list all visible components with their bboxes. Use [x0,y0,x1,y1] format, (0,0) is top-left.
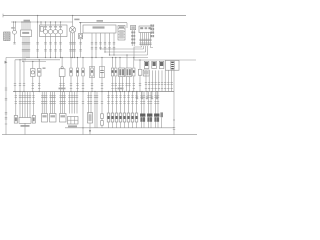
fuel injector assembly box [40,25,68,37]
fuse F6 [127,113,130,128]
ignition module Q1 [59,57,65,92]
wire bundle: mid loads [41,92,92,114]
EGR valve assembly box [165,60,179,70]
heated oxygen sensor HO2S-2 [152,61,157,68]
PCM module U1 [83,25,116,33]
switch module S1 [139,26,153,33]
label: splice S102 [118,88,124,90]
wire: shield bus [24,61,46,63]
glow plug pair GP3 [154,114,159,128]
fuse F1 [107,113,110,128]
ignition coil T1 [69,27,75,33]
fuse F7 [131,113,134,128]
wire bundle: glow plug feeds [140,92,159,114]
wire bundle: right cluster grounds [145,70,173,91]
lamp assembly E3 [60,114,67,123]
wire: bus-to-bus link [82,91,84,135]
wire bundle: right loads [107,91,137,113]
connector row C (PCM wires) [91,42,115,49]
wire: bus end drop at C113 [126,23,128,28]
label: valves [43,68,46,69]
lamp assembly E2 [50,114,57,123]
wire: main right drop [173,70,175,134]
fuse F4 [119,113,122,128]
fuse F2 [111,113,114,128]
wire stubs: right ground pigtails [136,91,158,100]
resistor R6 (blower) [14,116,17,124]
coolant temp sensor B4 [125,54,131,92]
fuel pump M1 [88,113,93,124]
node C123 label [97,20,104,22]
wire: battery feed bus B+ [3,14,186,18]
lamp assembly E1 [42,114,48,123]
wire pair: AC clutch feed [94,91,98,128]
wire: lower ground bus G102 [65,127,174,129]
relay K2 [138,59,142,92]
wire bundle: PCM harness [91,33,114,58]
wire: module ground stub [24,123,26,134]
heater control module A2 [19,118,31,127]
wire: injector box feed stub [40,21,41,25]
relay K3 [143,70,149,76]
wire bundle: lower-left loads [15,92,35,118]
node C108 label [74,19,79,21]
wire: accessory bus [134,59,196,61]
wire: PCM to switch route 2 [105,46,146,53]
injector INJ1 [43,21,47,34]
injector INJ3 [53,21,57,34]
fuse F3 [115,113,118,128]
wire: left trunk drop 2 [14,60,16,92]
wire: signal return bus [15,59,60,61]
resistor R3 [111,57,113,92]
injector INJ4 [58,21,62,34]
resistor R4 [115,57,117,92]
wire: switch to accessory joins [134,46,153,61]
wire: fuel pump ground with splice arrow [89,123,91,135]
wire: PCM to switch route 3 [110,46,148,56]
knock sensor B2 (boxed) [89,57,94,92]
splice arrow on left trunk [5,61,8,64]
MAF sensor U2 [21,21,32,36]
connector row C (coil wires) [69,42,75,51]
resistor R1 (coil suppressor) [70,57,72,92]
resistor chain R8 [101,91,104,128]
wire: ignition switched bus right segment [79,22,127,24]
wire: sensor ground bus [6,57,148,59]
wire: ignition switched bus [11,21,73,23]
fuse F5 [123,113,126,128]
connector C100 (hatched block) [4,32,10,41]
heated oxygen sensor HO2S-1 [144,61,149,68]
connector C113 (pin block) [118,26,125,41]
injector INJ2 [48,21,52,34]
wire: left trunk drop 4 [23,62,25,93]
wire: left trunk drop 1 [5,58,7,135]
wire: main ground bus G101 [13,91,174,93]
diode V1 [76,57,78,92]
fuse F8 [135,113,138,128]
capacitor C3 (boxed) [99,57,104,92]
wire bundle: injector returns [37,25,61,58]
connector chain C115 [150,25,154,38]
camshaft sensor B5 [79,22,83,57]
wire bundle: coil low side [71,33,76,58]
glow plug pair GP1 [140,114,145,128]
heated oxygen sensor HO2S-3 [159,61,164,68]
glow plug pair GP2 [147,114,152,128]
wire: left trunk drop 3 [19,59,21,92]
idle air valve Y1 [31,61,35,92]
wire comb: switch module outputs [139,33,151,46]
resistor ladder R9 (heater grid) [171,61,174,69]
wire: PCM to switch route 1 [101,46,144,50]
purge valve Y2 [37,59,41,92]
instrument cluster gauge A3 [68,117,79,128]
node C128 label [24,20,31,22]
wire bundle: MAF sensor outputs [22,37,29,63]
connector chain below relay K1 [131,30,135,46]
relay K1 [131,26,136,30]
label: splice S101 [59,88,66,90]
connector ticks on left trunk [5,88,7,124]
wire: chassis ground rail [2,134,197,136]
resistor R5 [133,57,135,92]
wire: feed to injector box [37,15,38,25]
connector row C (injector wires) [36,42,61,51]
connector row C (MAF wires) [22,42,30,51]
sensor B6 [160,112,163,127]
resistor R7 [32,116,35,124]
resistor R2 [82,57,84,92]
wire: feed to ignition coil [72,15,73,27]
throttle position sensor B3 [118,57,124,92]
solenoid valve VR1 [11,21,16,44]
